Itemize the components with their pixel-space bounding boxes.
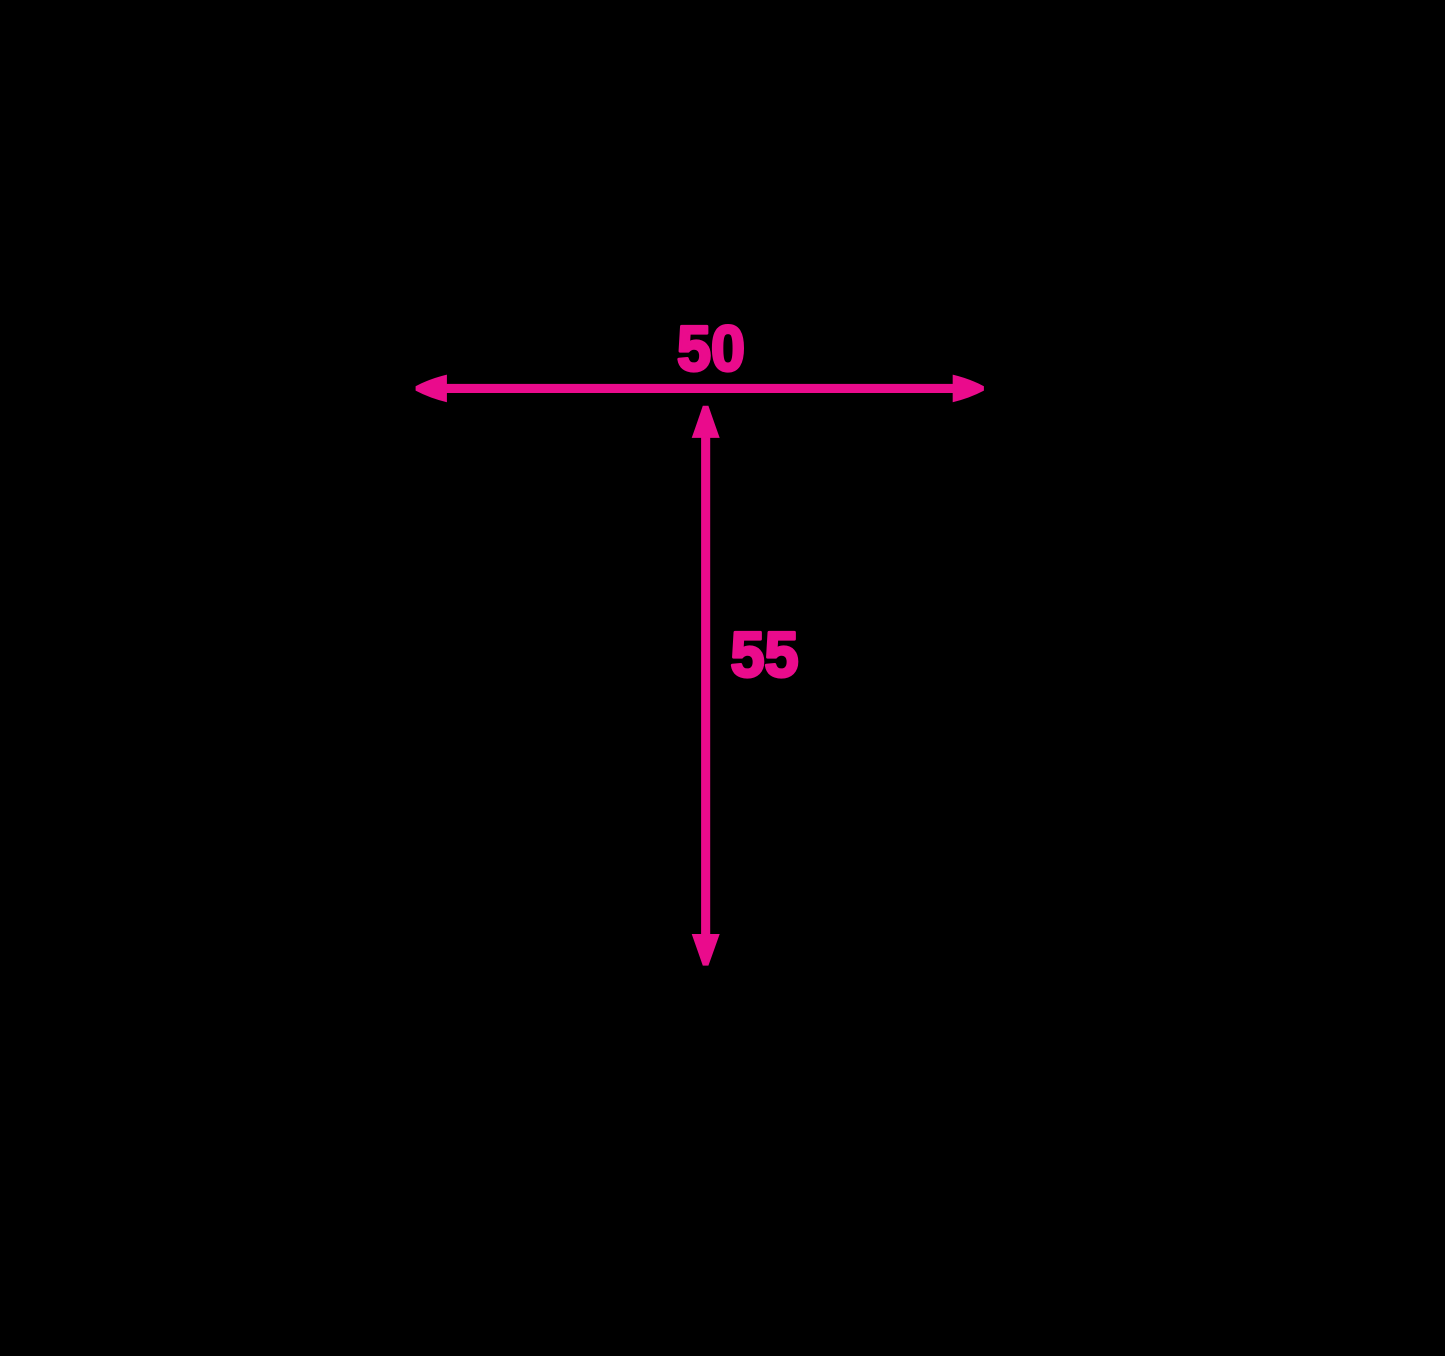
svg-text:55: 55 (731, 619, 799, 691)
vertical dimension arrow (height 55) (692, 406, 720, 966)
top arrowhead (692, 406, 720, 438)
wire: vertical shaft (701, 430, 710, 940)
left arrowhead (416, 375, 447, 403)
right arrowhead (953, 375, 984, 403)
dimension label 55 (731, 619, 799, 691)
svg-text:50: 50 (677, 313, 745, 385)
horizontal dimension arrow (width 50) (416, 375, 984, 403)
wire: horizontal shaft (440, 384, 955, 393)
bottom arrowhead (692, 934, 720, 966)
dimension label 50 (677, 313, 745, 385)
